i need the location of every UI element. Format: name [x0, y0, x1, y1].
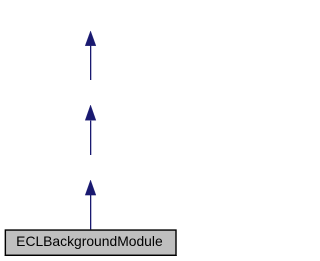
node ECLBackgroundModule (current class box, grey fill, black border): [5, 230, 177, 255]
wire: inheritance edge 2 (middle, arrowhead pointing up): [85, 105, 96, 155]
doxygen-style inheritance graph for ECLBackgroundModule: [0, 0, 181, 261]
wire: inheritance edge 1 (topmost, arrowhead pointing up): [85, 31, 96, 80]
svg-text:ECLBackgroundModule: ECLBackgroundModule: [16, 234, 163, 249]
wire: inheritance edge 3 (bottom, arrowhead pointing up into node): [85, 180, 96, 229]
